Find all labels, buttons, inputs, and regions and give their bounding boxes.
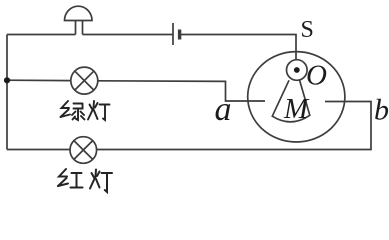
绿 right part 氺 bottom	[76, 109, 79, 121]
wire: left vertical bus	[6, 35, 8, 150]
绿 right part 录 top	[74, 103, 83, 105]
battery E1	[173, 23, 180, 45]
label 红灯 (red lamp) drawn strokes	[58, 169, 112, 192]
wire: top segment battery to right corner, down to S contact	[180, 35, 297, 61]
灯 right part 丁	[102, 172, 113, 174]
svg-text:a: a	[215, 91, 232, 128]
灯 fire radical	[90, 105, 93, 110]
motor housing circle	[248, 52, 345, 142]
wire: top segment bell to battery	[83, 34, 174, 36]
wire: green lamp to contact a	[98, 81, 265, 101]
wire: bottom run to corner b and up to right contact	[97, 102, 371, 150]
pivot center dot	[294, 67, 300, 73]
bell B1	[65, 6, 93, 34]
红 silk radical	[59, 169, 67, 177]
灯 fire radical	[92, 173, 95, 178]
wire: middle (green lamp) branch	[7, 79, 71, 81]
wire: top segment left of bell	[7, 34, 76, 36]
lamp L1 (green)	[71, 67, 98, 94]
绿 silk radical	[62, 101, 70, 108]
wire: bottom (red lamp) branch	[7, 149, 70, 151]
svg-text:S: S	[301, 17, 314, 43]
红 right part 工	[72, 172, 82, 174]
pivot circle O	[287, 60, 308, 81]
svg-text:O: O	[306, 60, 327, 92]
pendulum sector M	[272, 80, 310, 122]
junction node (left bus / green branch)	[4, 77, 10, 83]
lamp L2 (red)	[70, 137, 97, 164]
label 绿灯 (green lamp) drawn strokes	[61, 101, 110, 120]
svg-text:b: b	[374, 94, 389, 127]
svg-text:M: M	[283, 93, 310, 125]
灯 right part 丁	[100, 104, 110, 106]
